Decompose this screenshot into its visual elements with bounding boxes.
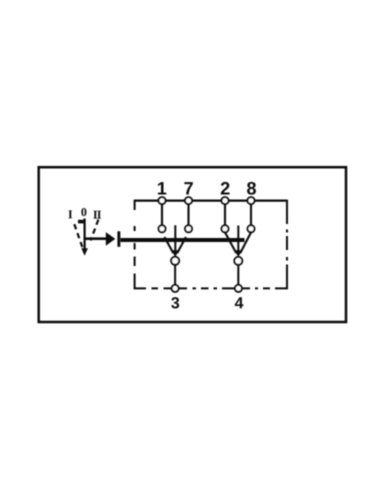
lever position label II bbox=[93, 211, 101, 219]
terminal 1 circle bbox=[159, 197, 166, 204]
switch S housing (dash-dot enclosure) bbox=[134, 200, 288, 289]
terminal 3 pin label bbox=[171, 297, 179, 308]
fixed contact 1 circle bbox=[159, 225, 166, 232]
terminal 4 circle bbox=[235, 285, 242, 292]
figure outer frame (decorative) bbox=[39, 167, 346, 322]
terminal 8 pin label bbox=[247, 182, 256, 195]
actuator linkage rod with arrowhead and stop bbox=[86, 231, 121, 247]
junction node above terminal 3 bbox=[171, 257, 179, 265]
terminal 2 circle bbox=[222, 197, 229, 204]
terminal 1 pin label bbox=[158, 182, 166, 194]
movable bridge contact 2-8 (stem, legs, arrowhead) bbox=[225, 226, 251, 257]
terminal 8 circle bbox=[248, 197, 255, 204]
wire terminal 8 to fixed contact bbox=[250, 203, 252, 226]
lever position label 0 bbox=[81, 208, 86, 216]
terminal 4 pin label bbox=[235, 297, 244, 308]
terminal 2 pin label bbox=[221, 182, 230, 195]
fixed contact 8 circle bbox=[248, 225, 255, 232]
junction node above terminal 4 bbox=[234, 257, 242, 265]
lever position I (dashed) bbox=[74, 224, 82, 247]
fixed contact 7 circle bbox=[185, 225, 192, 232]
lever travel arrow (down) bbox=[81, 248, 88, 256]
wire to terminal 4 bbox=[237, 265, 239, 286]
wire terminal 7 to fixed contact bbox=[187, 203, 189, 226]
wire terminal 1 to fixed contact bbox=[161, 203, 163, 226]
lever in position 0 (solid) with handle flag bbox=[78, 219, 85, 250]
wire to terminal 3 bbox=[174, 265, 176, 286]
terminal 3 circle bbox=[172, 285, 179, 292]
contact carrier bar (slider) bbox=[121, 238, 245, 242]
fixed contact 2 circle bbox=[222, 225, 229, 232]
movable bridge contact 1-7 (stem, legs, arrowhead) bbox=[165, 225, 186, 257]
terminal 7 circle bbox=[185, 197, 192, 204]
lever position II (dashed) bbox=[91, 220, 99, 241]
terminal 7 pin label bbox=[184, 182, 192, 194]
wire terminal 2 to fixed contact bbox=[224, 203, 226, 226]
lever position label I bbox=[68, 210, 72, 218]
